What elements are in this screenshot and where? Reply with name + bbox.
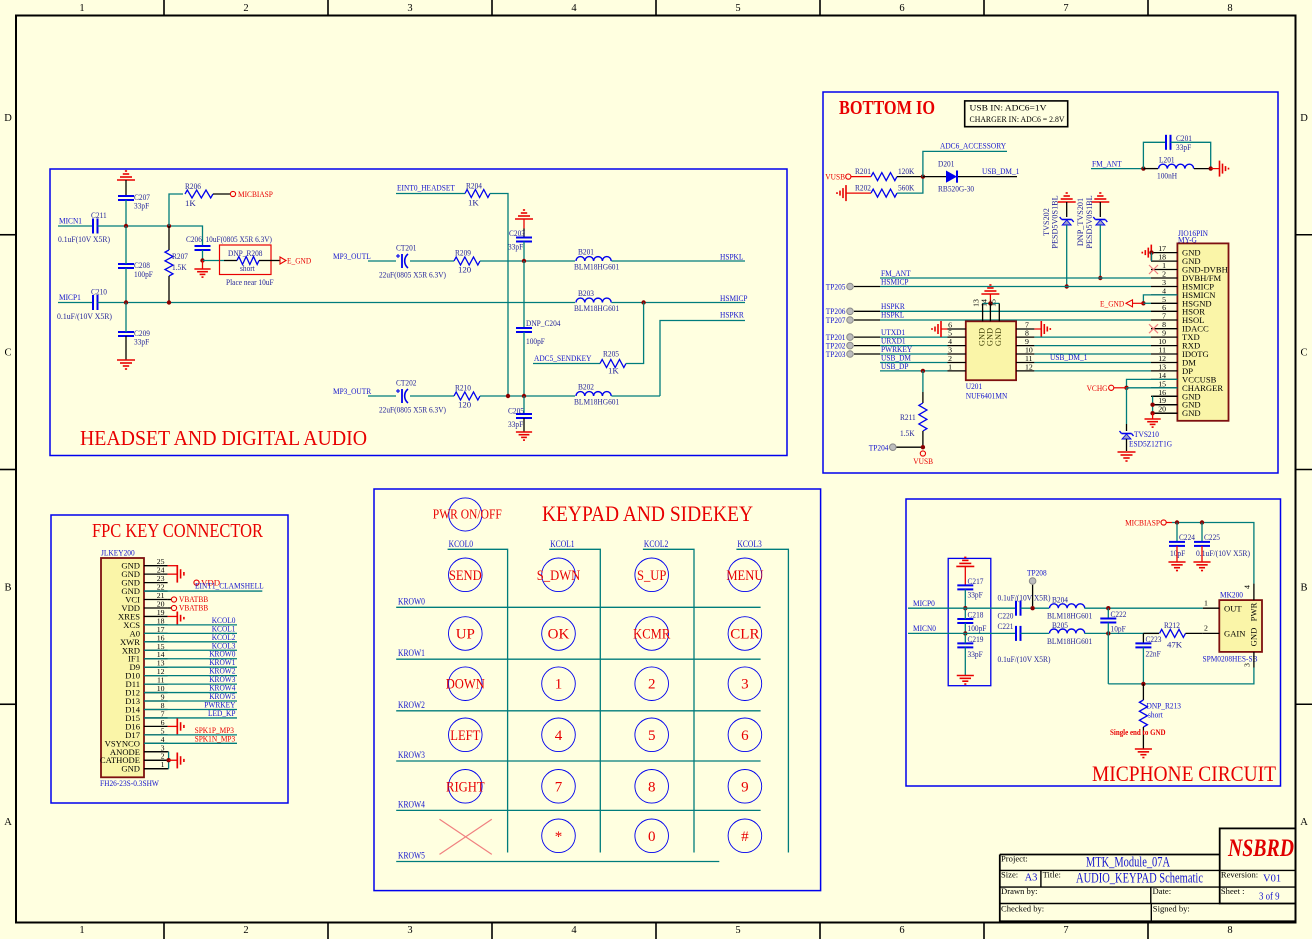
svg-text:33pF: 33pF: [968, 649, 983, 659]
svg-text:1: 1: [79, 925, 84, 936]
junction: [124, 224, 128, 228]
pin 12 U201: [1016, 362, 1034, 371]
node USB_DM_1: [982, 166, 1019, 176]
svg-text:Size:: Size:: [1001, 870, 1018, 880]
wire: [58, 225, 93, 227]
svg-text:BLM18HG601: BLM18HG601: [574, 397, 619, 407]
testpoint TP204: [869, 443, 923, 453]
svg-text:1K: 1K: [468, 198, 479, 208]
resistor R206: [185, 181, 230, 208]
wire KCOL3: [736, 549, 788, 852]
svg-text:1.5K: 1.5K: [900, 428, 915, 438]
capacitor C208: [118, 226, 153, 303]
logo NSBRD: [1227, 835, 1294, 862]
junction: [1141, 166, 1145, 170]
svg-text:KROW1: KROW1: [398, 648, 425, 658]
svg-text:B201: B201: [578, 247, 594, 257]
junction: [1150, 411, 1154, 415]
inductor B203: [574, 288, 619, 313]
key CLR: [728, 617, 762, 651]
ground: [1034, 321, 1050, 337]
ground: [168, 612, 184, 625]
ground: [515, 210, 533, 238]
wire: [660, 321, 745, 397]
svg-text:8: 8: [1227, 925, 1232, 936]
no-connect pin8: [1149, 324, 1158, 333]
key 5: [635, 718, 669, 752]
pin 17 JIO16PIN GND: [1151, 244, 1201, 258]
connector JIO16PIN body: [1177, 243, 1228, 420]
title BOTTOM IO: [839, 98, 935, 119]
ground: [956, 557, 974, 585]
wire KROW5: [396, 861, 719, 863]
title HEADSET AND DIGITAL AUDIO: [80, 426, 367, 450]
svg-text:5: 5: [735, 3, 740, 14]
node KROW1: [398, 648, 425, 658]
svg-text:MY-G: MY-G: [1178, 234, 1197, 244]
title block grid: [1000, 828, 1296, 921]
key KCMR: [633, 617, 670, 651]
svg-text:TVS210: TVS210: [1134, 429, 1159, 439]
wire KCOL1: [549, 549, 600, 852]
node HSPKR: [720, 310, 744, 320]
node KROW2: [398, 700, 425, 710]
wire: [410, 395, 454, 397]
node USB_DM: [881, 353, 911, 363]
svg-text:AUDIO_KEYPAD Schematic: AUDIO_KEYPAD Schematic: [1076, 870, 1203, 886]
pin 2 U201: [948, 354, 966, 363]
svg-text:KROW5: KROW5: [398, 851, 425, 861]
svg-text:HEADSET AND DIGITAL AUDIO: HEADSET AND DIGITAL AUDIO: [80, 426, 367, 450]
wire KROW4: [396, 809, 760, 811]
node MICP0: [913, 598, 935, 608]
node VUSB: [913, 451, 933, 466]
block MICPHONE CIRCUIT: [906, 499, 1281, 786]
svg-text:SPK1N_MP3: SPK1N_MP3: [195, 733, 236, 743]
node PWRKEY: [881, 344, 913, 354]
svg-text:BOTTOM IO: BOTTOM IO: [839, 98, 935, 119]
node KCOL3: [737, 539, 762, 549]
capacitor C206: [186, 234, 272, 261]
block KEYPAD AND SIDEKEY: [374, 489, 821, 891]
svg-text:7: 7: [1162, 312, 1166, 321]
svg-text:0.1uF/(10V X5R): 0.1uF/(10V X5R): [998, 593, 1051, 603]
svg-text:C206 10uF(0805 X5R 6.3V): C206 10uF(0805 X5R 6.3V): [186, 234, 272, 244]
pin 9 JIO16PIN TXD: [1151, 329, 1200, 343]
svg-text:MK200: MK200: [1220, 590, 1244, 600]
node KROW2: [209, 666, 235, 676]
svg-text:short: short: [240, 263, 255, 273]
ic U201 NUF6401MN body: [966, 321, 1016, 380]
wire KCOL2: [643, 549, 694, 852]
svg-text:USB_DM_1: USB_DM_1: [982, 166, 1019, 176]
junction: [1124, 386, 1128, 390]
diode D201: [923, 159, 1017, 194]
node MICN0: [913, 623, 937, 633]
svg-text:33pF: 33pF: [134, 337, 149, 347]
svg-text:FM_ANT: FM_ANT: [1092, 159, 1122, 169]
wire gnd rail: [1108, 668, 1254, 684]
wire KROW2: [396, 710, 760, 712]
svg-text:20: 20: [1158, 405, 1166, 414]
junction: [167, 224, 171, 228]
pin 15 JIO16PIN CHARGER: [1151, 379, 1223, 393]
node E_GND: [1100, 299, 1143, 309]
pin 10 U201: [1016, 346, 1034, 355]
svg-text:R209: R209: [455, 248, 471, 258]
wire: [612, 302, 746, 304]
svg-text:BLM18HG601: BLM18HG601: [1047, 636, 1092, 646]
label U201: [966, 381, 1008, 401]
svg-text:100nH: 100nH: [1157, 171, 1178, 181]
svg-text:NSBRD: NSBRD: [1227, 835, 1294, 862]
node VUSB: [825, 172, 851, 182]
pin 5 JIO16PIN HSGND: [1151, 295, 1212, 309]
pin 1 U201: [948, 362, 966, 371]
svg-text:1: 1: [948, 362, 952, 371]
svg-text:C221: C221: [998, 621, 1014, 631]
svg-text:R210: R210: [455, 383, 471, 393]
junction: [1030, 606, 1034, 610]
svg-text:UP: UP: [456, 627, 475, 643]
svg-text:KROW2: KROW2: [398, 700, 425, 710]
ground: [117, 360, 135, 369]
node HSMICP: [720, 293, 748, 303]
wire FM_ANT: [880, 277, 1151, 279]
capacitor C218: [957, 608, 986, 633]
wire: [1171, 142, 1211, 168]
wire pins 3-2-1: [144, 752, 169, 769]
wire URXD1: [880, 345, 948, 347]
svg-text:KROW0: KROW0: [398, 596, 425, 606]
svg-text:3: 3: [407, 3, 412, 14]
svg-text:RIGHT: RIGHT: [446, 779, 485, 795]
svg-text:PWR: PWR: [1249, 602, 1259, 621]
capacitor C211: [58, 210, 110, 244]
resistor R204: [465, 181, 490, 208]
pin 5 JLKEY200 D17: [125, 726, 167, 740]
pin 11 JLKEY200 D11: [126, 676, 168, 690]
svg-text:C220: C220: [998, 611, 1014, 621]
node KCOL1: [550, 539, 574, 549]
svg-text:R202: R202: [855, 183, 871, 193]
svg-text:KCOL3: KCOL3: [737, 539, 762, 549]
svg-text:R206: R206: [185, 181, 201, 191]
svg-text:MICP0: MICP0: [913, 598, 935, 608]
svg-text:CT202: CT202: [396, 378, 417, 388]
svg-text:6: 6: [899, 3, 904, 14]
svg-text:B203: B203: [578, 288, 594, 298]
svg-text:GAIN: GAIN: [1224, 629, 1246, 639]
testpoint TP206: [826, 306, 880, 316]
svg-text:14: 14: [979, 299, 988, 307]
node HSPKR: [881, 301, 905, 311]
node MICN1: [59, 216, 82, 226]
note Single end to GND: [1110, 727, 1166, 737]
svg-text:C219: C219: [968, 634, 984, 644]
capacitor C225: [1194, 523, 1250, 563]
svg-text:Signed by:: Signed by:: [1153, 904, 1190, 914]
svg-text:3: 3: [1243, 663, 1252, 667]
svg-text:Reversion:: Reversion:: [1221, 870, 1258, 880]
svg-text:CLR: CLR: [730, 627, 759, 643]
testpoint TP207: [826, 315, 880, 325]
pin 16 JIO16PIN GND: [1151, 388, 1201, 402]
wire USB_DM: [880, 362, 948, 364]
svg-text:C211: C211: [91, 210, 107, 220]
svg-text:TP205: TP205: [826, 282, 846, 292]
svg-text:Project:: Project:: [1001, 854, 1028, 864]
svg-text:12: 12: [1025, 362, 1033, 371]
svg-text:6: 6: [899, 925, 904, 936]
resistor R205: [600, 349, 626, 376]
svg-text:Date:: Date:: [1153, 886, 1172, 896]
wire: [368, 395, 396, 397]
pin 6 JLKEY200 D16: [125, 718, 167, 732]
svg-text:MP3_OUTR: MP3_OUTR: [333, 386, 371, 396]
svg-text:E_GND: E_GND: [1100, 299, 1124, 309]
key LEFT: [449, 718, 483, 752]
svg-text:E_GND: E_GND: [287, 256, 311, 266]
pin 4 JLKEY200 VSYNCO: [105, 735, 168, 749]
pin 3 U201: [948, 346, 966, 355]
svg-text:A3: A3: [1025, 873, 1038, 884]
node EINT1_CLAMSHELL: [195, 581, 264, 591]
wire HSPKR: [880, 310, 1151, 312]
svg-text:33pF: 33pF: [508, 242, 523, 252]
svg-text:120K: 120K: [898, 166, 915, 176]
label SPM0208HES-SB: [1203, 654, 1258, 664]
ground: [516, 432, 532, 440]
wire USB_DP: [880, 370, 948, 372]
wire KROW2: [144, 675, 237, 677]
wire KROW1: [396, 658, 760, 660]
pin 4 JIO16PIN HSMICN: [1151, 286, 1216, 300]
svg-text:0.1uF/(10V X5R): 0.1uF/(10V X5R): [1196, 548, 1250, 558]
svg-text:BLM18HG601: BLM18HG601: [1047, 611, 1092, 621]
junction: [1065, 284, 1069, 288]
svg-text:HSPKL: HSPKL: [720, 252, 743, 262]
svg-text:5: 5: [648, 728, 656, 744]
svg-text:8: 8: [1227, 3, 1232, 14]
node FM_ANT: [1092, 159, 1122, 169]
label MK200: [1220, 590, 1244, 600]
pin 18 JLKEY200 XCS: [123, 616, 167, 630]
wire: [480, 260, 575, 262]
key 4: [542, 718, 576, 752]
ground: [194, 261, 210, 278]
svg-text:2: 2: [1204, 624, 1208, 633]
field Signed by: [1153, 904, 1190, 914]
svg-text:0.1uF(10V X5R): 0.1uF(10V X5R): [58, 234, 110, 244]
capacitor C205: [508, 396, 532, 432]
svg-text:0.1uF/(10V X5R): 0.1uF/(10V X5R): [57, 311, 112, 321]
pin 9 U201: [1016, 337, 1034, 346]
svg-text:1.5K: 1.5K: [172, 262, 187, 272]
svg-text:47K: 47K: [1167, 640, 1183, 650]
svg-text:5: 5: [735, 925, 740, 936]
ground: [932, 321, 948, 337]
svg-text:KCOL1: KCOL1: [550, 539, 574, 549]
pin 15 JLKEY200 XRD: [122, 642, 168, 656]
node KCOL0: [449, 539, 474, 549]
junction: [167, 300, 171, 304]
svg-text:Place near 10uF: Place near 10uF: [226, 277, 274, 287]
wire KCOL0: [448, 549, 508, 852]
wire MICN0: [908, 632, 1016, 634]
connector JLKEY200 body: [101, 558, 144, 777]
node HSMICP: [881, 277, 909, 287]
node KCOL2: [212, 632, 236, 642]
junction: [522, 394, 526, 398]
inductor B201: [574, 247, 619, 272]
svg-text:B: B: [4, 582, 11, 593]
junction: [1141, 682, 1145, 686]
wire SPK1P_MP3: [144, 734, 237, 736]
wire HSMICP run: [98, 302, 576, 304]
svg-text:JLKEY200: JLKEY200: [101, 548, 135, 558]
svg-text:OK: OK: [548, 627, 570, 643]
svg-text:USB IN: ADC6=1V: USB IN: ADC6=1V: [970, 104, 1047, 113]
svg-text:PESD5V0S1BL: PESD5V0S1BL: [1051, 195, 1060, 248]
svg-text:VUSB: VUSB: [913, 456, 933, 466]
key DOWN: [446, 667, 485, 701]
wire: [98, 226, 203, 246]
node VCHG: [1087, 383, 1127, 393]
wire MICP0: [908, 607, 1016, 609]
pin 22 JLKEY200 GND: [121, 583, 167, 597]
wire: [612, 260, 746, 262]
wire: [533, 363, 600, 365]
pin 7 JLKEY200 D15: [125, 709, 167, 723]
svg-text:2: 2: [243, 3, 248, 14]
svg-text:DOWN: DOWN: [446, 677, 485, 693]
key UP: [449, 617, 483, 651]
svg-text:C205: C205: [508, 406, 524, 416]
wire: [897, 177, 923, 194]
svg-text:EINT0_HEADSET: EINT0_HEADSET: [397, 183, 455, 193]
wire KROW5: [144, 700, 237, 702]
svg-text:ADC5_SENDKEY: ADC5_SENDKEY: [534, 353, 592, 363]
node FM_ANT: [881, 268, 911, 278]
ground: [1211, 161, 1229, 177]
svg-text:KEYPAD AND SIDEKEY: KEYPAD AND SIDEKEY: [542, 501, 753, 526]
svg-text:22uF(0805 X5R 6.3V): 22uF(0805 X5R 6.3V): [379, 270, 446, 280]
junction: [921, 174, 925, 178]
svg-text:33pF: 33pF: [968, 590, 983, 600]
ground: [1118, 452, 1136, 461]
capacitor C201: [1166, 133, 1192, 152]
wire: [490, 194, 508, 397]
node SPK1N_MP3: [195, 733, 236, 743]
svg-text:4: 4: [571, 925, 577, 936]
wire: [480, 395, 575, 397]
svg-text:33pF: 33pF: [134, 201, 149, 211]
label JIO16PIN MY-G: [1178, 228, 1209, 244]
key 0: [635, 819, 669, 853]
pin 18 JIO16PIN GND: [1151, 253, 1201, 267]
svg-text:C203: C203: [509, 228, 525, 238]
wire HSMICN bend: [1143, 295, 1177, 303]
junction: [1141, 301, 1145, 305]
svg-text:B205: B205: [1052, 620, 1068, 630]
note box ADC6: [965, 101, 1068, 127]
node KROW3: [209, 674, 236, 684]
svg-text:R211: R211: [900, 412, 916, 422]
inductor B204: [1047, 595, 1092, 621]
resistor R201: [851, 166, 923, 181]
capacitor C221: [998, 621, 1021, 641]
resistor R209: [454, 248, 480, 275]
pin label GND: [978, 328, 987, 346]
pin 15 U201: [988, 299, 999, 321]
svg-text:2: 2: [243, 925, 248, 936]
wire UTXD1: [880, 336, 948, 338]
wire MICBIASP: [1166, 523, 1254, 584]
ground: [957, 676, 974, 685]
svg-text:15: 15: [988, 299, 997, 307]
diode DNP_TVS201: [1076, 193, 1109, 278]
svg-text:22uF(0805 X5R 6.3V): 22uF(0805 X5R 6.3V): [379, 405, 446, 415]
svg-text:B: B: [1300, 582, 1307, 593]
node KROW4: [398, 799, 425, 809]
svg-text:HSMICP: HSMICP: [881, 277, 909, 287]
wire: [626, 303, 644, 364]
svg-text:BLM18HG601: BLM18HG601: [574, 303, 619, 313]
ic MK200 body: [1219, 600, 1262, 652]
wire KCOL1: [144, 632, 237, 634]
svg-text:C217: C217: [968, 576, 984, 586]
field Size: [1001, 870, 1037, 884]
wire KROW4: [144, 692, 237, 694]
svg-text:TP208: TP208: [1027, 568, 1047, 578]
pin 13 U201: [972, 299, 983, 321]
svg-text:FH26-23S-0.3SHW: FH26-23S-0.3SHW: [100, 778, 159, 788]
wire: [1127, 387, 1178, 389]
junction: [963, 606, 967, 610]
svg-text:#: #: [741, 829, 749, 845]
svg-text:DNP_TVS201: DNP_TVS201: [1076, 198, 1085, 246]
field Drawn by: [1001, 886, 1038, 896]
testpoint TP208: [1027, 568, 1047, 609]
inductor L201: [1143, 155, 1210, 181]
capacitor C223: [1135, 633, 1162, 684]
pin 20 JLKEY200 VDD: [121, 599, 167, 613]
node KROW3: [398, 750, 425, 760]
svg-text:33pF: 33pF: [508, 419, 523, 429]
key RIGHT: [446, 770, 485, 804]
wire PWRKEY: [144, 708, 237, 710]
pin 8 JIO16PIN IDACC: [1151, 320, 1209, 334]
svg-text:MICN0: MICN0: [913, 623, 937, 633]
title KEYPAD AND SIDEKEY: [542, 501, 753, 526]
svg-text:6: 6: [741, 728, 749, 744]
wire: [922, 371, 924, 392]
node USB_DP: [881, 361, 909, 371]
note 0.1uF top: [998, 593, 1051, 603]
wire: [410, 260, 454, 262]
svg-text:R204: R204: [466, 181, 482, 191]
svg-text:560K: 560K: [898, 183, 915, 193]
svg-text:120: 120: [458, 265, 472, 275]
svg-text:6: 6: [1162, 303, 1166, 312]
svg-text:short: short: [1148, 710, 1163, 720]
pin 4 U201: [948, 337, 966, 346]
pin 3 JLKEY200 ANODE: [110, 743, 168, 757]
node MICBIASP: [230, 189, 273, 199]
block BOTTOM IO: [823, 92, 1278, 473]
svg-text:ESD5Z12T1G: ESD5Z12T1G: [1129, 439, 1173, 449]
